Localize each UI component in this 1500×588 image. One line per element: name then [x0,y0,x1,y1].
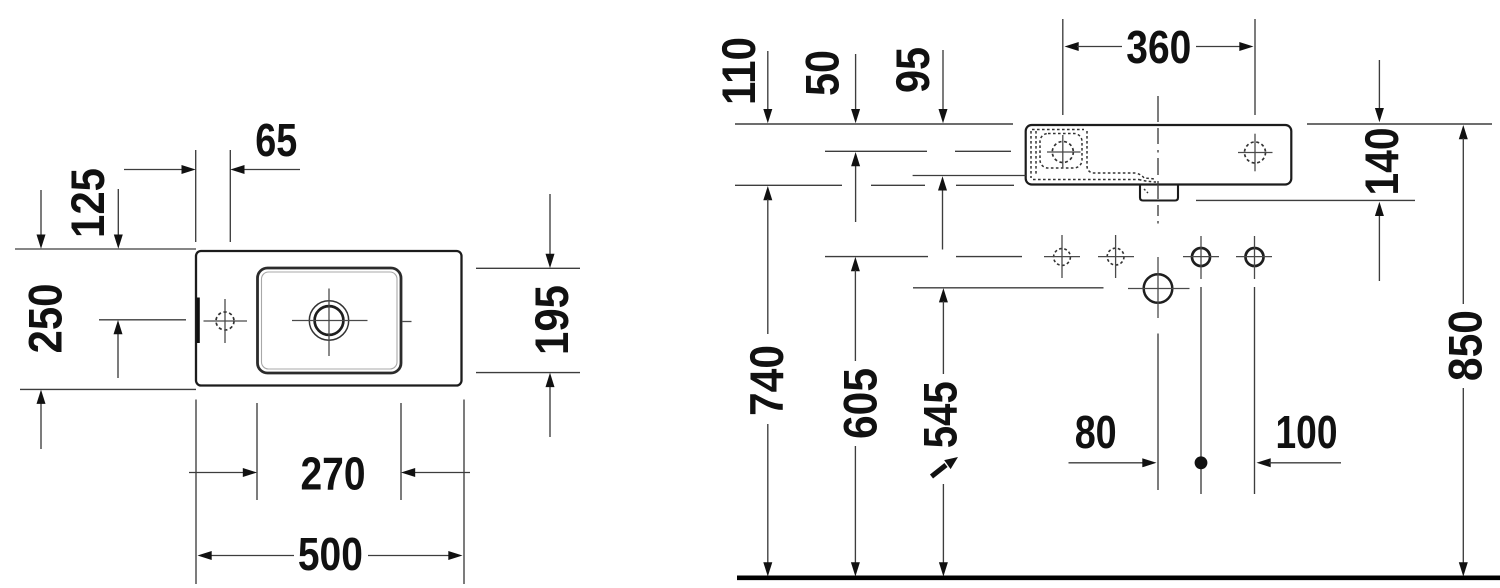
drain circle crosshair [1128,257,1190,318]
svg-text:80: 80 [1075,406,1117,458]
vertical centerline (dash-dot) through drain [1157,96,1159,224]
overflow slot mark on left inner wall [197,298,200,344]
svg-text:500: 500 [298,528,363,580]
svg-text:50: 50 [796,50,849,96]
faucet hole crosshair [1047,135,1081,169]
centerline tick right of bowl [403,321,412,323]
dim 850 vertical line with up arrow at rim [1459,125,1468,139]
dim 500 extension lines [196,400,464,585]
hidden tap platform dotted outline [1031,130,1156,183]
faucet hole crosshair [204,299,248,343]
dim 140 down arrow [1378,60,1380,110]
drain inner circle [315,306,344,335]
svg-text:545: 545 [914,381,967,448]
dim 270 right arrow segment [415,472,470,474]
dim 850 down arrow at floor [1459,562,1468,576]
bowl interior bottom line (95 line) [913,175,1026,177]
basin bottom extension line (110 line) [735,184,1014,186]
dim 360 dimension line with outward arrows [1065,42,1079,51]
dim 65 extension lines [196,150,231,242]
basin bottom edge extension line (left) [20,388,196,390]
mounting-hole level dashed line (50 line) [825,150,1011,152]
svg-text:270: 270 [301,448,366,500]
dim 100 dimension line with left arrow [1257,458,1271,467]
dim 95 down arrow [942,50,944,111]
adjustability arrow symbol next to 545 [932,457,959,477]
svg-text:360: 360 [1126,21,1191,73]
svg-text:195: 195 [525,285,578,355]
fixing hole 1 (dotted) [1054,249,1071,266]
svg-text:65: 65 [255,114,297,166]
floor line [737,575,1500,580]
dim 110 down arrow [767,51,769,111]
dim 95 up arrow [942,189,944,250]
dim 250 upper arrow (down) [40,190,42,236]
svg-text:605: 605 [834,368,887,439]
dim 50 down arrow [855,54,857,111]
fixing hole 4 (solid) [1246,248,1264,266]
dim 545 down arrow at floor [939,562,948,576]
svg-text:100: 100 [1276,406,1338,458]
spigot bottom extension line (140 line) [1196,199,1415,201]
fixing hole row centerline (dashed) [825,256,1022,258]
fixing hole 2 (dotted) [1107,248,1124,265]
svg-text:140: 140 [1355,128,1408,196]
dim 605 vertical line with up arrow at hole row [851,257,860,271]
dim 195 upper arrow (down) [549,194,551,256]
svg-text:850: 850 [1439,310,1492,381]
dim 50 up arrow [855,165,857,222]
svg-text:250: 250 [19,284,72,354]
dim 270 left arrow segment [189,472,243,474]
dim 250 lower arrow (up) [40,403,42,449]
dim 545 vertical line with up arrow at drain level [939,288,948,302]
hidden bowl dotted bit inside drain spigot [1144,189,1148,193]
drain outer circle [309,301,348,340]
dim 605 down arrow at floor [851,562,860,576]
svg-text:740: 740 [740,345,793,416]
svg-text:95: 95 [886,47,939,93]
wall / rim reference line left segment [735,123,1013,125]
right mounting hole crosshair [1238,134,1273,172]
dim 65 dimension line right segment with arrow [244,169,300,171]
faucet hole (dashed circle) [216,312,234,330]
dim 740 vertical line with up arrow at basin bottom [763,186,772,200]
svg-text:125: 125 [61,168,114,238]
dim 360 extension lines [1063,19,1255,115]
faucet hole front view (dotted circle) [1052,142,1073,163]
basin top edge extension line (left) [15,248,196,250]
dim 270 extension lines [257,403,401,500]
svg-text:110: 110 [712,37,765,105]
dim 125 upper arrow (down) [117,189,119,236]
dim 80 terminator dot [1195,456,1208,469]
drain circle front view [1144,274,1173,303]
right mounting hole (dotted circle) [1245,142,1266,163]
dim 125 lower arrow (up) [117,333,119,378]
dim 80 dimension line with right arrow at centerline [1069,462,1145,464]
drain spigot below basin [1140,185,1178,201]
centerline below drain [1157,334,1159,491]
dim 65 dimension line left segment with arrow [124,169,182,171]
drain crosshair [292,289,368,357]
dim 195 lower arrow (up) [549,386,551,438]
dim 195 extension lines (right of basin) [476,268,580,372]
dim 140 up arrow [1378,213,1380,281]
drain level line (545 line) [913,287,1104,289]
basin front outline [1026,125,1292,185]
faucet centerline extension (left of basin) [99,319,186,321]
basin outer rim rectangle [196,251,462,386]
dim 740 down arrow at floor [763,562,772,576]
fixing hole 3 (solid) [1192,248,1210,266]
extension line below fixing hole 4 [1254,287,1256,494]
inner bowl rounded rectangle [258,268,402,373]
wall / rim reference line right segment [1307,123,1492,125]
extension line below fixing hole 3 [1200,287,1202,494]
dim 500 dimension line with inward arrows [210,555,294,557]
